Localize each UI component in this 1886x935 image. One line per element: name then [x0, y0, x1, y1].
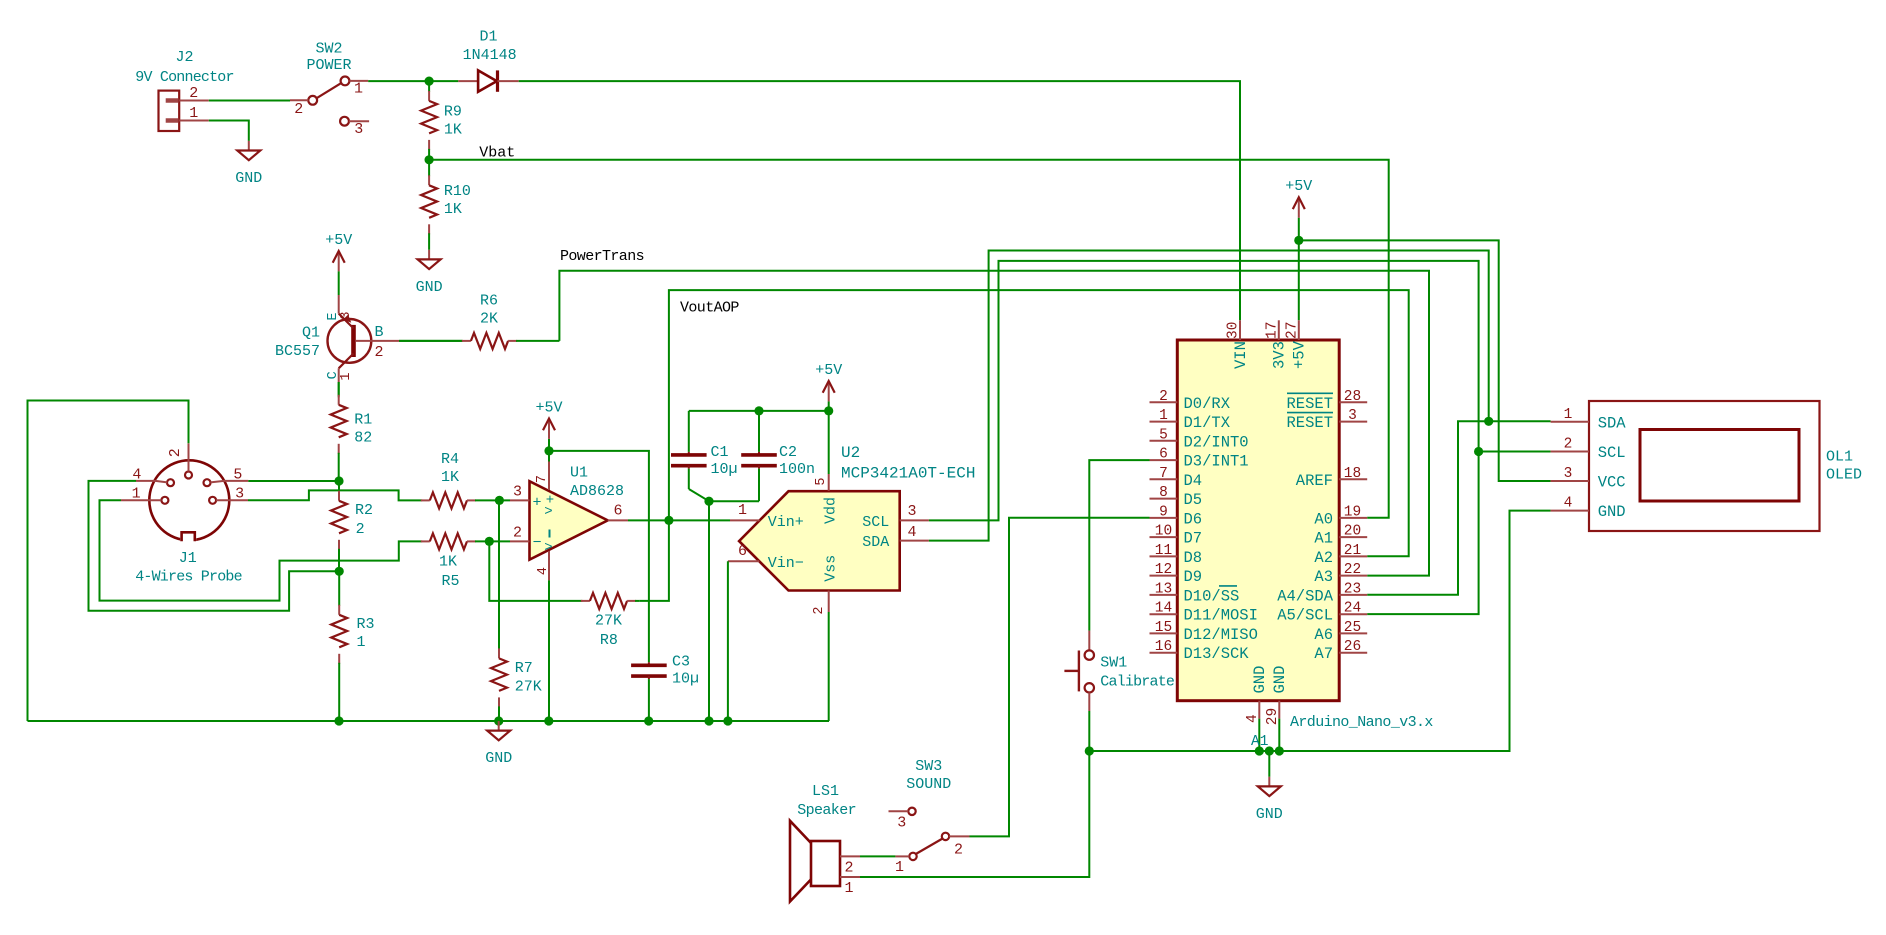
- svg-text:R1: R1: [354, 412, 372, 429]
- svg-text:1: 1: [354, 81, 363, 98]
- svg-text:Vdd: Vdd: [822, 497, 839, 524]
- svg-text:AREF: AREF: [1296, 472, 1333, 490]
- node junction C1/C2 bottom: [704, 497, 713, 506]
- svg-text:3: 3: [235, 486, 244, 503]
- svg-text:R7: R7: [515, 660, 533, 677]
- svg-text:Calibrate: Calibrate: [1100, 674, 1175, 691]
- svg-text:Speaker: Speaker: [797, 802, 856, 819]
- svg-text:9: 9: [1159, 504, 1168, 520]
- svg-text:C3: C3: [672, 654, 690, 671]
- svg-text:D13/SCK: D13/SCK: [1184, 645, 1250, 663]
- adc U2 MCP3421A0T-ECH: [728, 411, 976, 721]
- svg-text:6: 6: [738, 543, 747, 560]
- svg-text:D9: D9: [1184, 568, 1203, 586]
- svg-text:J2: J2: [175, 49, 193, 66]
- svg-text:4: 4: [907, 524, 916, 541]
- svg-text:3: 3: [354, 121, 363, 138]
- svg-text:A7: A7: [1314, 645, 1333, 663]
- svg-text:10: 10: [1155, 524, 1172, 540]
- node junction GND pin4: [1255, 746, 1264, 755]
- wire Arduino A2 stub: [0, 0, 1, 1]
- wire C1/C2 bottom to rail: [708, 501, 710, 721]
- svg-text:D10/SS: D10/SS: [1184, 587, 1240, 605]
- svg-text:1: 1: [189, 105, 198, 122]
- svg-text:30: 30: [1226, 322, 1242, 339]
- resistor R10 1K: [421, 160, 471, 250]
- svg-text:U2: U2: [841, 444, 860, 462]
- wire SW1 to ground rail: [1088, 711, 1090, 751]
- svg-text:82: 82: [354, 430, 372, 447]
- svg-text:1: 1: [339, 372, 354, 380]
- svg-text:>: >: [544, 540, 552, 556]
- svg-text:2: 2: [954, 842, 963, 859]
- svg-text:R5: R5: [441, 573, 459, 590]
- svg-text:D4: D4: [1184, 472, 1203, 490]
- svg-text:A0: A0: [1314, 510, 1333, 528]
- svg-text:R6: R6: [480, 293, 498, 310]
- svg-text:A1: A1: [1251, 734, 1268, 750]
- svg-text:R10: R10: [444, 183, 471, 200]
- svg-text:GND: GND: [235, 170, 262, 187]
- ground GND at Arduino: [1256, 777, 1283, 823]
- svg-text:SCL: SCL: [1598, 444, 1626, 462]
- wire Arduino A4/SDA to OLED pin1: [1367, 421, 1550, 595]
- node junction R5/U1 pin2/R8: [485, 537, 494, 546]
- svg-text:SDA: SDA: [1598, 414, 1627, 432]
- wire PowerTrans net R6 to Arduino A3: [559, 271, 1429, 576]
- svg-text:25: 25: [1344, 620, 1361, 636]
- svg-text:PowerTrans: PowerTrans: [560, 248, 644, 265]
- svg-text:A3: A3: [1314, 568, 1333, 586]
- svg-text:D1: D1: [479, 29, 497, 46]
- svg-text:Vin+: Vin+: [768, 514, 804, 531]
- resistor R2 2: [331, 481, 373, 571]
- svg-text:GND: GND: [1256, 806, 1283, 823]
- svg-text:SDA: SDA: [862, 534, 889, 551]
- svg-text:D6: D6: [1184, 510, 1203, 528]
- svg-text:21: 21: [1344, 543, 1361, 559]
- svg-text:17: 17: [1264, 322, 1280, 339]
- svg-text:+5V: +5V: [535, 399, 562, 416]
- node junction C2 top: [754, 406, 763, 415]
- node junction +5V/U1 pin7/C3: [544, 446, 553, 455]
- node junction R4/U1 pin3/R7: [495, 496, 504, 505]
- svg-text:OL1: OL1: [1826, 448, 1853, 465]
- svg-text:7: 7: [1159, 466, 1168, 482]
- svg-text:D5: D5: [1184, 491, 1203, 509]
- svg-text:A4/SDA: A4/SDA: [1277, 587, 1334, 605]
- svg-text:A1: A1: [1314, 530, 1333, 548]
- svg-text:16: 16: [1155, 639, 1172, 655]
- svg-text:SW3: SW3: [915, 758, 942, 775]
- svg-text:2: 2: [167, 448, 184, 457]
- svg-text:−: −: [532, 535, 541, 552]
- resistor R7 27K: [491, 648, 542, 721]
- wire R4 junction down to R7: [498, 500, 500, 650]
- svg-text:4: 4: [536, 567, 551, 575]
- svg-text:11: 11: [1155, 543, 1172, 559]
- svg-text:R8: R8: [600, 632, 618, 649]
- svg-text:RESET: RESET: [1286, 414, 1333, 432]
- wire J2 pin2 to SW2: [209, 100, 290, 102]
- wire U2 Vin- to rail: [727, 561, 729, 721]
- svg-text:19: 19: [1344, 504, 1361, 520]
- switch SW3 SOUND: [889, 758, 970, 876]
- svg-text:2: 2: [356, 521, 365, 538]
- svg-text:2: 2: [812, 606, 827, 614]
- svg-text:GND: GND: [1271, 666, 1289, 694]
- svg-text:3: 3: [897, 815, 906, 832]
- svg-text:Vin−: Vin−: [768, 555, 804, 572]
- node junction U2 Vin- on rail: [723, 716, 732, 725]
- wire Vbat to Arduino A0: [429, 160, 1389, 518]
- speaker LS1: [790, 783, 860, 902]
- resistor R6 2K: [399, 293, 559, 349]
- svg-text:R9: R9: [444, 104, 462, 121]
- svg-text:18: 18: [1344, 466, 1361, 482]
- svg-text:LS1: LS1: [812, 783, 839, 800]
- svg-text:BC557: BC557: [275, 343, 320, 360]
- svg-text:1K: 1K: [444, 122, 462, 139]
- connector J2 9V Connector: [135, 49, 233, 131]
- svg-text:1: 1: [738, 502, 747, 519]
- wire +5V to C3: [549, 451, 649, 646]
- svg-text:1: 1: [895, 859, 904, 876]
- svg-text:SOUND: SOUND: [906, 776, 951, 793]
- svg-text:+5V: +5V: [1285, 178, 1312, 195]
- svg-text:D11/MOSI: D11/MOSI: [1184, 607, 1258, 625]
- node junction Vbat at R9/R10: [425, 155, 434, 164]
- power +5V at U1: [535, 399, 562, 451]
- wire U2 SDA to OLED SDA: [929, 251, 1489, 541]
- svg-text:4-Wires Probe: 4-Wires Probe: [135, 569, 242, 586]
- svg-text:23: 23: [1344, 581, 1361, 597]
- svg-text:GND: GND: [416, 279, 443, 296]
- wire J1 pin4 to R2/R3 junction: [89, 481, 340, 611]
- svg-text:+5V: +5V: [325, 232, 352, 249]
- svg-text:2: 2: [375, 344, 384, 361]
- svg-text:2: 2: [1564, 437, 1573, 453]
- svg-text:9V Connector: 9V Connector: [135, 69, 233, 86]
- diode D1 1N4148: [458, 29, 518, 92]
- svg-text:1: 1: [1564, 407, 1573, 423]
- svg-text:VIN: VIN: [1232, 341, 1250, 369]
- svg-text:+5V: +5V: [815, 362, 842, 379]
- net label VoutAOP: [680, 299, 739, 316]
- svg-text:8: 8: [1159, 485, 1168, 501]
- svg-text:7: 7: [535, 475, 550, 483]
- svg-text:13: 13: [1155, 581, 1172, 597]
- svg-text:3V3: 3V3: [1271, 341, 1289, 369]
- svg-text:5: 5: [814, 477, 829, 485]
- svg-text:10µ: 10µ: [672, 671, 699, 688]
- svg-text:1N4148: 1N4148: [463, 47, 517, 64]
- svg-text:D1/TX: D1/TX: [1184, 414, 1231, 432]
- svg-text:AD8628: AD8628: [570, 483, 624, 500]
- capacitor C1 10u: [671, 411, 738, 501]
- node junction SDA at OLED: [1484, 417, 1493, 426]
- svg-text:5: 5: [233, 466, 242, 483]
- switch SW2 POWER: [290, 41, 369, 138]
- wire Arduino D6 to SW3: [970, 518, 1150, 837]
- svg-text:20: 20: [1344, 524, 1361, 540]
- svg-text:28: 28: [1344, 389, 1361, 405]
- wire Q1 collector to R1: [338, 382, 340, 397]
- wire +5V to Q1 emitter: [338, 271, 340, 295]
- svg-text:VCC: VCC: [1598, 474, 1626, 492]
- svg-text:22: 22: [1344, 562, 1361, 578]
- wire J2 pin1 to GND: [209, 121, 249, 141]
- node junction U1 pin4 on rail: [544, 716, 553, 725]
- node junction C3 bottom on rail: [644, 716, 653, 725]
- svg-text:A6: A6: [1314, 626, 1333, 644]
- svg-text:14: 14: [1155, 601, 1172, 617]
- svg-text:15: 15: [1155, 620, 1172, 636]
- svg-text:GND: GND: [485, 750, 512, 767]
- svg-text:SW2: SW2: [315, 41, 342, 58]
- svg-text:A2: A2: [1314, 549, 1333, 567]
- power +5V at Arduino: [1285, 178, 1312, 240]
- node junction R7 bottom on rail: [494, 716, 503, 725]
- svg-text:1: 1: [357, 634, 366, 651]
- svg-text:2: 2: [844, 860, 853, 877]
- svg-text:+5V: +5V: [1291, 340, 1309, 369]
- svg-text:1: 1: [844, 880, 853, 897]
- svg-text:>: >: [544, 504, 552, 520]
- svg-text:D8: D8: [1184, 549, 1203, 567]
- resistor R5 1K: [421, 533, 510, 590]
- capacitor C2 100n: [709, 411, 815, 501]
- svg-text:C1: C1: [711, 444, 729, 461]
- svg-text:27K: 27K: [515, 679, 542, 696]
- node junction R1/R2/pin5: [334, 476, 343, 485]
- svg-text:D7: D7: [1184, 530, 1203, 548]
- svg-text:SW1: SW1: [1100, 654, 1127, 671]
- wire Arduino GND pins to rail: [1259, 719, 1279, 751]
- net label Vbat: [479, 145, 515, 162]
- svg-text:3: 3: [1564, 466, 1573, 482]
- svg-text:OLED: OLED: [1826, 467, 1862, 484]
- node junction GND pin29: [1275, 746, 1284, 755]
- svg-text:3: 3: [907, 503, 916, 520]
- wire D1 cathode to Arduino VIN: [519, 81, 1240, 320]
- ground GND at rail: [485, 721, 512, 767]
- resistor R8 27K: [581, 593, 639, 649]
- svg-text:D0/RX: D0/RX: [1184, 395, 1231, 413]
- node junction U1 output / VoutAOP / R8: [664, 516, 673, 525]
- node junction SW1/ground rail: [1085, 746, 1094, 755]
- wire speaker pin2 to SW3 pin1: [860, 855, 895, 857]
- svg-text:1K: 1K: [444, 201, 462, 218]
- svg-text:1K: 1K: [439, 554, 457, 571]
- net label PowerTrans: [560, 248, 644, 265]
- wire GND stem: [1268, 751, 1270, 777]
- node junction R3 bottom on rail: [334, 716, 343, 725]
- wire SW2 pin1 to D1 node: [368, 80, 458, 82]
- svg-text:GND: GND: [1598, 503, 1626, 521]
- ground GND at J2: [235, 141, 262, 187]
- resistor R9 1K: [421, 81, 462, 160]
- svg-text:3: 3: [339, 311, 354, 319]
- svg-text:100n: 100n: [779, 461, 815, 478]
- mcu module Arduino_Nano_v3.x: [1150, 320, 1434, 731]
- svg-text:24: 24: [1344, 601, 1361, 617]
- svg-text:2: 2: [189, 85, 198, 102]
- svg-text:U1: U1: [570, 465, 588, 482]
- svg-text:2: 2: [1159, 389, 1168, 405]
- svg-text:A5/SCL: A5/SCL: [1277, 607, 1333, 625]
- svg-text:POWER: POWER: [306, 57, 351, 74]
- svg-text:6: 6: [613, 502, 622, 519]
- svg-text:Vss: Vss: [822, 555, 839, 582]
- connector J1 4-Wires Probe: [121, 443, 248, 585]
- wire R8 to U1 output junction: [639, 520, 669, 601]
- wire R5 junction to R8: [489, 541, 582, 601]
- svg-text:VoutAOP: VoutAOP: [680, 299, 739, 316]
- svg-text:Arduino_Nano_v3.x: Arduino_Nano_v3.x: [1290, 714, 1433, 731]
- node junction Vdd top: [824, 406, 833, 415]
- svg-text:3: 3: [513, 483, 522, 500]
- svg-text:1: 1: [132, 486, 141, 503]
- svg-text:Q1: Q1: [302, 325, 320, 342]
- svg-text:2: 2: [513, 524, 522, 541]
- wire +5V rail over C1 C2: [689, 410, 829, 412]
- svg-text:B: B: [375, 324, 384, 341]
- svg-text:SCL: SCL: [862, 514, 889, 531]
- svg-text:12: 12: [1155, 562, 1172, 578]
- svg-text:1K: 1K: [441, 469, 459, 486]
- node junction SCL at OLED: [1474, 447, 1483, 456]
- wire +5V to Arduino pin27 and OLED VCC: [1299, 240, 1551, 481]
- resistor R4 1K: [421, 451, 510, 508]
- switch SW1 Calibrate: [1064, 631, 1175, 711]
- wire analog ground rail: [28, 720, 830, 722]
- wire Arduino D3 to SW1: [1089, 460, 1149, 630]
- svg-text:RESET: RESET: [1286, 395, 1333, 413]
- node junction +5V Arduino: [1294, 236, 1303, 245]
- svg-text:26: 26: [1344, 639, 1361, 655]
- svg-text:2K: 2K: [480, 311, 498, 328]
- display connector OL1 OLED: [1551, 401, 1862, 531]
- wire VoutAOP net to Arduino A2: [669, 290, 1409, 556]
- wire digital ground rail to OLED GND: [1089, 511, 1550, 751]
- svg-text:C2: C2: [779, 444, 797, 461]
- svg-text:J1: J1: [179, 550, 197, 567]
- net label A1: [1251, 734, 1268, 750]
- wire J1 pin3 jog to R4: [248, 490, 422, 500]
- svg-text:10µ: 10µ: [711, 461, 738, 478]
- resistor R1 82: [331, 382, 373, 481]
- node junction C1/C2 bottom on rail: [704, 716, 713, 725]
- resistor R3 1: [331, 571, 374, 721]
- capacitor C3 10u: [631, 646, 699, 721]
- wire U1 output to U2 Vin+: [669, 519, 730, 521]
- svg-text:5: 5: [1159, 427, 1168, 443]
- wire speaker return to ground rail: [860, 751, 1089, 877]
- node junction at D1 anode / R9 top: [425, 77, 434, 86]
- svg-text:6: 6: [1159, 447, 1168, 463]
- svg-text:4: 4: [1564, 496, 1573, 512]
- power +5V at Q1 emitter: [325, 232, 352, 272]
- transistor Q1 BC557: [275, 295, 399, 382]
- ground GND at R10: [416, 250, 443, 296]
- wire Q1 base to R6: [399, 340, 462, 342]
- wire SCL junction to OLED pin2: [1479, 451, 1551, 453]
- wire U2 SCL to Arduino A5/SCL and OLED SCL: [929, 261, 1479, 614]
- svg-text:D3/INT1: D3/INT1: [1184, 453, 1249, 471]
- svg-text:D12/MISO: D12/MISO: [1184, 626, 1258, 644]
- svg-text:R4: R4: [441, 451, 459, 468]
- svg-text:1: 1: [1159, 408, 1168, 424]
- svg-text:R3: R3: [357, 616, 375, 633]
- svg-text:27: 27: [1284, 322, 1300, 339]
- wire J1 pin1 to R5: [100, 500, 423, 600]
- op-amp U1 AD8628: [510, 451, 669, 721]
- svg-text:27K: 27K: [595, 613, 622, 630]
- svg-text:MCP3421A0T-ECH: MCP3421A0T-ECH: [841, 464, 975, 482]
- svg-text:+: +: [532, 495, 541, 512]
- wire J1 pin2 shield loop to ground rail: [28, 401, 189, 722]
- svg-text:GND: GND: [1251, 666, 1269, 694]
- power +5V at U2: [815, 362, 842, 411]
- node junction R2/R3/pin4: [335, 567, 344, 576]
- svg-text:R2: R2: [355, 502, 373, 519]
- wire J1 pin5 to R1/R2 junction: [248, 480, 339, 482]
- svg-text:D2/INT0: D2/INT0: [1184, 433, 1249, 451]
- svg-text:2: 2: [294, 101, 303, 118]
- node junction GND stem: [1265, 746, 1274, 755]
- svg-text:3: 3: [1348, 408, 1357, 424]
